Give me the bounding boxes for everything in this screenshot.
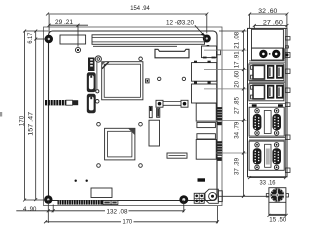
panel outline bbox=[248, 28, 288, 176]
VGA cutout block bbox=[252, 29, 284, 48]
svg-text:21 .08: 21 .08 bbox=[234, 31, 241, 48]
svg-text:33 .16: 33 .16 bbox=[260, 179, 276, 186]
vertical slot connector bbox=[149, 120, 160, 146]
chip U2 corner holes bbox=[97, 122, 143, 167]
DB9 panel row 1 bbox=[249, 107, 284, 136]
DIMM slot bbox=[92, 35, 205, 45]
battery holder bbox=[91, 188, 112, 198]
DC jack projection line bbox=[218, 195, 269, 197]
connector J2 bbox=[149, 106, 152, 117]
LAN/USB block 1 (board) bbox=[192, 61, 217, 81]
DB9 connector 1 (board) bbox=[196, 103, 222, 127]
small rings right of U1 bbox=[158, 77, 186, 80]
svg-text:170: 170 bbox=[19, 116, 26, 127]
svg-text:157 .47: 157 .47 bbox=[28, 112, 35, 136]
separator strip 2 bbox=[249, 81, 285, 83]
svg-text:27 .60: 27 .60 bbox=[263, 20, 283, 27]
DC jack (panel) bbox=[266, 188, 288, 215]
power header 2x2 bbox=[194, 193, 204, 203]
DIMM latch block bbox=[60, 35, 86, 44]
sheet fold mark left bbox=[0, 112, 2, 117]
DB9 connector 2 (board) bbox=[196, 134, 222, 161]
board outline bbox=[49, 31, 218, 201]
dimension 6.17 bbox=[34, 30, 37, 33]
dimension 157.47 left bbox=[34, 31, 47, 201]
svg-text:170: 170 bbox=[123, 218, 133, 225]
chip U2 bbox=[105, 128, 135, 160]
dimension 15.50 bbox=[268, 214, 288, 217]
DB9 panel row 2 bbox=[249, 141, 284, 170]
svg-text:27 .85: 27 .85 bbox=[234, 97, 241, 114]
dimension 170 bottom bbox=[44, 206, 219, 223]
trace to ring bbox=[96, 62, 99, 93]
dimension 132.08 bbox=[47, 200, 186, 223]
header J1 (dark) bbox=[88, 58, 95, 72]
dimension 32.60 bbox=[248, 13, 288, 29]
bracket side bumps bbox=[285, 37, 290, 173]
bottom edge connector (hatched) bbox=[58, 200, 104, 204]
LAN/USB block 2 (board) bbox=[192, 81, 217, 103]
dimension 154.94 bbox=[46, 13, 208, 34]
dimension 27.60 bbox=[253, 24, 289, 30]
mounting hole TR bbox=[203, 35, 211, 43]
mounting hole BL bbox=[44, 195, 52, 203]
svg-text:12 -Ø3.20: 12 -Ø3.20 bbox=[166, 19, 194, 26]
dimension texts bbox=[19, 5, 287, 226]
connector CN1 bbox=[155, 49, 189, 58]
jumper block bbox=[156, 100, 188, 107]
separator strip 1 bbox=[249, 61, 286, 62]
chip U1 corner holes bbox=[95, 56, 142, 103]
left edge connector (hatched) bbox=[45, 100, 78, 105]
component bar bbox=[198, 178, 206, 181]
audio jack block (board) bbox=[202, 45, 221, 58]
svg-text:132 .08: 132 .08 bbox=[107, 209, 128, 216]
dot pair bbox=[75, 180, 88, 182]
dimension 29.21 bbox=[48, 24, 88, 47]
chip U1 bbox=[102, 62, 143, 100]
leader 12-3.20 bbox=[195, 25, 205, 36]
pad strip bbox=[249, 103, 286, 107]
svg-text:32 .60: 32 .60 bbox=[258, 8, 277, 15]
LAN/USB panel block 2 bbox=[249, 84, 284, 101]
connector J3 bbox=[157, 108, 160, 117]
bottom edge connector boxes bbox=[103, 201, 118, 205]
audio jack row bbox=[252, 48, 285, 60]
dimension 170 left bbox=[23, 30, 48, 202]
svg-text:15 .50: 15 .50 bbox=[269, 217, 286, 224]
DC jack (board) bbox=[205, 189, 222, 203]
svg-text:154 .94: 154 .94 bbox=[130, 5, 150, 12]
SATA connector 2 bbox=[87, 94, 96, 113]
mounting hole BR bbox=[179, 195, 188, 204]
svg-text:6.17: 6.17 bbox=[27, 32, 34, 43]
mounting hole TL bbox=[45, 35, 53, 43]
svg-text:29 .21: 29 .21 bbox=[55, 19, 73, 26]
outer board outline bbox=[44, 27, 223, 206]
right dimension chain line bbox=[219, 31, 247, 196]
svg-text:4 .90: 4 .90 bbox=[23, 206, 37, 213]
horizontal component bar bbox=[167, 153, 187, 158]
dimension 4.90 bbox=[16, 205, 54, 213]
dimension 33.16 bbox=[248, 176, 287, 179]
hole B bbox=[75, 47, 80, 52]
LAN/USB panel block 1 bbox=[249, 64, 284, 81]
svg-text:34 .79: 34 .79 bbox=[234, 121, 241, 138]
svg-text:20 .60: 20 .60 bbox=[234, 70, 241, 87]
slot line under DIMM bbox=[93, 45, 177, 47]
svg-text:17 .91: 17 .91 bbox=[234, 51, 241, 68]
svg-text:37 .39: 37 .39 bbox=[234, 158, 241, 175]
SATA connector 1 bbox=[87, 72, 96, 92]
strip between DB9 rows bbox=[249, 138, 285, 141]
small component D1 bbox=[146, 79, 150, 83]
